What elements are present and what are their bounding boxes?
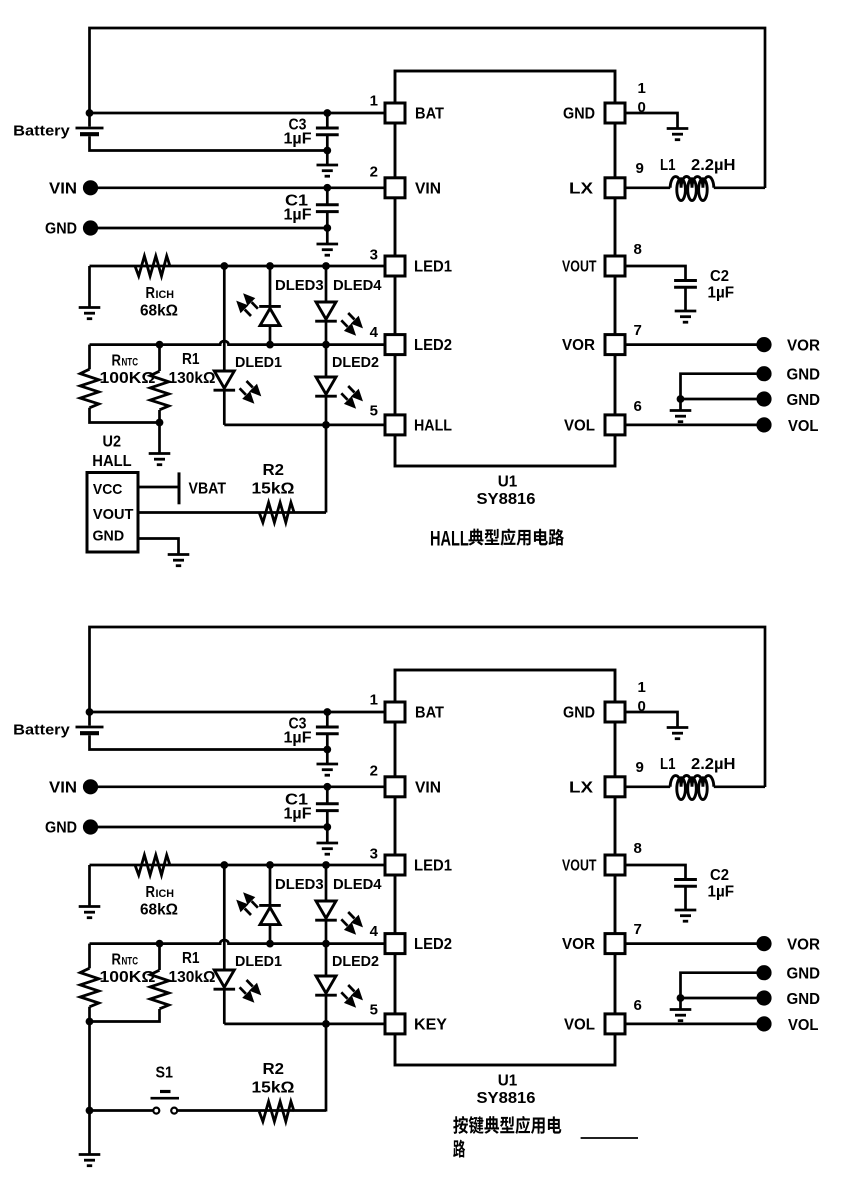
svg-text:DLED3: DLED3	[275, 876, 324, 893]
wire C3 top lead	[326, 712, 329, 727]
svg-text:VBAT: VBAT	[189, 481, 227, 498]
svg-text:3: 3	[370, 247, 378, 264]
wire RICH left gnd stub	[88, 266, 91, 308]
svg-text:LED1: LED1	[414, 858, 452, 875]
wire C1 top lead	[326, 787, 329, 804]
svg-text:DLED2: DLED2	[332, 354, 379, 371]
wire VOUT to C2	[627, 865, 686, 880]
wire C1 gnd stub	[326, 827, 329, 843]
wire pin5 row	[224, 424, 383, 427]
capacitor C2'	[674, 880, 697, 887]
ground C2	[675, 910, 697, 921]
resistor R2'	[259, 1102, 294, 1122]
svg-text:7: 7	[634, 921, 642, 938]
node LED2-DLED3	[266, 341, 274, 349]
wire left column to switch	[88, 1022, 91, 1111]
node LED1-DLED1	[220, 861, 228, 869]
svg-text:DLED1: DLED1	[235, 953, 282, 970]
svg-text:4: 4	[370, 324, 379, 341]
capacitor C3	[316, 128, 339, 135]
node C1 gnd junction	[323, 823, 331, 831]
arrows DLED4 emission	[341, 313, 363, 336]
svg-text:SY8816: SY8816	[477, 491, 536, 508]
wire LED2 row with crossover hop	[90, 940, 384, 944]
wire RNTC bottom	[90, 408, 160, 423]
terminal VOR'	[756, 936, 771, 951]
svg-text:C2: C2	[710, 268, 729, 285]
node LED1-DLED4	[322, 861, 330, 869]
ground C3	[317, 165, 339, 176]
svg-text:SY8816: SY8816	[477, 1090, 536, 1107]
ground pin10	[667, 728, 689, 739]
terminal VOR	[756, 337, 771, 352]
svg-text:GND: GND	[787, 966, 821, 983]
svg-text:5: 5	[370, 1002, 378, 1019]
wire DLED1 bottom lead	[223, 990, 226, 1024]
pin 6 VOL square	[605, 415, 625, 435]
svg-text:VOUT: VOUT	[562, 858, 597, 875]
svg-text:DLED4: DLED4	[333, 876, 382, 893]
node C3 bottom junction	[323, 746, 331, 754]
node pin5-R2	[322, 421, 330, 429]
wire LED1 row	[90, 864, 384, 867]
wire to S1 left contact	[90, 1109, 154, 1112]
node R1 bottom junction	[156, 419, 164, 427]
svg-text:100KΩ: 100KΩ	[100, 370, 156, 387]
svg-text:DLED3: DLED3	[275, 277, 324, 294]
svg-text:GND: GND	[93, 528, 125, 545]
svg-text:VOR: VOR	[787, 936, 820, 953]
node LED2-DLED4	[322, 341, 330, 349]
svg-text:L1: L1	[660, 157, 676, 174]
svg-text:VOUT: VOUT	[93, 506, 133, 523]
svg-text:3: 3	[370, 846, 378, 863]
ground out	[670, 411, 692, 422]
svg-text:C2: C2	[710, 867, 729, 884]
svg-text:L1: L1	[660, 756, 676, 773]
wire GND out 2	[681, 398, 757, 401]
wire DLED1 bottom lead	[223, 391, 226, 425]
wire battery- bottom	[90, 136, 328, 150]
svg-text:VOR: VOR	[787, 337, 820, 354]
svg-text:VIN: VIN	[415, 180, 441, 197]
pin 3 LED1 square	[385, 855, 405, 875]
caption underline	[581, 1137, 638, 1139]
wire R2 riser	[325, 425, 328, 513]
node pin5-R2	[322, 1020, 330, 1028]
svg-text:8: 8	[634, 840, 642, 857]
svg-text:1: 1	[370, 93, 378, 110]
wire switch gnd stub	[88, 1111, 91, 1155]
svg-text:1µF: 1µF	[284, 131, 312, 148]
node C1 gnd junction	[323, 224, 331, 232]
svg-text:HALL: HALL	[414, 417, 452, 434]
svg-text:9: 9	[636, 759, 644, 776]
wire RNTC top lead	[88, 944, 91, 969]
svg-text:R1: R1	[182, 950, 200, 967]
arrows DLED3 emission	[236, 293, 258, 316]
svg-text:R2: R2	[263, 1061, 285, 1078]
wire LED1 row	[90, 265, 384, 268]
wire DLED3 top lead	[269, 865, 272, 905]
node GND out junction	[677, 994, 685, 1002]
wire battery+ to BAT pin	[90, 711, 384, 714]
svg-text:DLED4: DLED4	[333, 277, 382, 294]
node switch junction	[86, 1107, 94, 1115]
svg-text:R2: R2	[263, 462, 285, 479]
svg-text:8: 8	[634, 241, 642, 258]
ground C3	[317, 764, 339, 775]
svg-text:HALL: HALL	[92, 453, 132, 470]
wire battery+ to BAT pin	[90, 112, 384, 115]
pin 7 VOR square	[605, 934, 625, 954]
terminal VOL'	[756, 1016, 771, 1031]
svg-text:100KΩ: 100KΩ	[100, 969, 156, 986]
VBAT tick mark	[178, 472, 181, 504]
node C1 top junction	[323, 184, 331, 192]
wire GND out stub	[679, 399, 682, 411]
node LED1-DLED4	[322, 262, 330, 270]
terminal VIN'	[83, 779, 98, 794]
terminal GND	[83, 220, 98, 235]
caption CJK 按键典型应用电	[453, 1116, 561, 1134]
wire pin10 to gnd	[627, 113, 678, 129]
wire LX to L1	[627, 186, 671, 189]
node LED2-R1	[156, 940, 164, 948]
ground RICH	[79, 907, 101, 918]
svg-text:U2: U2	[103, 434, 122, 451]
resistor RNTC'	[80, 968, 99, 1007]
inductor L1'	[670, 776, 714, 787]
svg-text:VOL: VOL	[788, 418, 819, 435]
pin 8 VOUT square	[605, 855, 625, 875]
node LED2-DLED4	[322, 940, 330, 948]
wire DLED4 top lead	[325, 266, 328, 302]
wire VIN to pin2	[98, 785, 384, 788]
pin 7 VOR square	[605, 335, 625, 355]
wire GND out stub	[679, 998, 682, 1010]
wire pin5 row	[224, 1023, 383, 1026]
node RNTC bottom junction	[86, 1018, 94, 1026]
wire RNTC bottom	[90, 1007, 160, 1022]
LED DLED2	[315, 377, 337, 396]
svg-text:VOR: VOR	[562, 337, 595, 354]
ground C1	[317, 843, 339, 854]
svg-text:1µF: 1µF	[708, 884, 735, 901]
wire L1 to loop	[714, 785, 765, 788]
wire U2 VCC to VBAT	[138, 486, 179, 489]
terminal GND'	[83, 819, 98, 834]
wire RICH left gnd stub	[88, 865, 91, 907]
wire R1 top lead	[158, 944, 161, 970]
wire DLED4 top lead	[325, 865, 328, 901]
wire C3 bottom lead	[326, 734, 329, 764]
svg-text:LED2: LED2	[414, 936, 452, 953]
resistor R2	[259, 503, 294, 523]
wire R2 riser	[325, 1024, 328, 1112]
caption CJK 典型应用电路	[468, 529, 564, 546]
svg-text:HALL: HALL	[430, 527, 469, 550]
wire battery- bottom	[90, 735, 328, 749]
wire GND out 1	[681, 973, 757, 998]
arrows DLED1 emission	[240, 980, 262, 1003]
svg-text:BAT: BAT	[415, 705, 444, 722]
wire GND to C1	[98, 826, 327, 829]
wire DLED1 top lead	[223, 266, 226, 371]
svg-text:NTC: NTC	[122, 357, 139, 369]
svg-text:VOL: VOL	[564, 417, 595, 434]
pin 2 VIN square	[385, 777, 405, 797]
svg-text:VIN: VIN	[415, 779, 441, 796]
wire VBAT top loop	[90, 28, 766, 188]
svg-text:GND: GND	[563, 705, 595, 722]
wire VOR out	[627, 343, 758, 346]
capacitor C2	[674, 281, 697, 288]
node battery + junction	[86, 708, 94, 716]
pin 5 square	[385, 415, 405, 435]
svg-text:6: 6	[634, 398, 642, 415]
terminal GND2'	[756, 990, 771, 1005]
pin 6 VOL square	[605, 1014, 625, 1034]
pin 8 VOUT square	[605, 256, 625, 276]
svg-text:VIN: VIN	[49, 779, 77, 796]
wire VOUT to C2	[627, 266, 686, 281]
wire C2 gnd lead	[684, 287, 687, 311]
node LED2-R1	[156, 341, 164, 349]
resistor RNTC	[80, 369, 99, 408]
svg-text:GND: GND	[563, 106, 595, 123]
terminal GND1'	[756, 965, 771, 980]
op-amp U1 SY8816 body	[395, 71, 615, 466]
wire C1 bottom lead	[326, 212, 329, 228]
svg-text:U1: U1	[498, 1073, 518, 1090]
svg-text:1: 1	[638, 80, 646, 97]
pin 9 LX square	[605, 777, 625, 797]
pin 10 GND square	[605, 702, 625, 722]
svg-text:7: 7	[634, 322, 642, 339]
caption CJK 路	[453, 1140, 465, 1158]
pin 4 LED2 square	[385, 934, 405, 954]
svg-text:KEY: KEY	[414, 1016, 447, 1033]
svg-text:1: 1	[370, 692, 378, 709]
svg-text:R: R	[146, 285, 156, 302]
svg-text:15kΩ: 15kΩ	[252, 481, 295, 498]
wire C1 gnd stub	[326, 228, 329, 244]
ground S1	[79, 1155, 101, 1166]
pin 1 BAT square	[385, 103, 405, 123]
node C1 top junction	[323, 783, 331, 791]
wire U2 GND stub	[138, 539, 179, 555]
resistor R1'	[150, 970, 169, 1009]
node GND out junction	[677, 395, 685, 403]
wire S1 to R2	[177, 1109, 326, 1112]
svg-text:GND: GND	[45, 221, 77, 238]
wire VOR out	[627, 942, 758, 945]
wire VIN to pin2	[98, 186, 384, 189]
battery B1'	[76, 727, 104, 733]
svg-text:Battery: Battery	[13, 722, 70, 739]
svg-text:R: R	[146, 884, 156, 901]
node LED1-DLED3	[266, 861, 274, 869]
wire C3 bottom lead	[326, 135, 329, 165]
ground R1	[149, 454, 171, 465]
wire DLED3 bottom lead	[269, 925, 272, 944]
svg-text:130kΩ: 130kΩ	[169, 969, 216, 986]
wire DLED2 top lead	[325, 944, 328, 976]
pin 1 BAT square	[385, 702, 405, 722]
wire LX to L1	[627, 785, 671, 788]
ground RICH	[79, 308, 101, 319]
LED DLED1'	[214, 970, 236, 989]
svg-text:LED1: LED1	[414, 259, 452, 276]
svg-text:VOR: VOR	[562, 936, 595, 953]
wire VOL out	[627, 1023, 758, 1026]
inductor L1	[670, 176, 714, 187]
ground C1	[317, 244, 339, 255]
svg-text:S1: S1	[156, 1065, 174, 1082]
svg-text:GND: GND	[45, 820, 77, 837]
op-amp U1 SY8816 body'	[395, 670, 615, 1065]
terminal VIN	[83, 180, 98, 195]
wire DLED1 top lead	[223, 865, 226, 970]
arrows DLED3 emission	[236, 892, 258, 915]
svg-text:2.2µH: 2.2µH	[691, 756, 736, 773]
terminal GND1	[756, 366, 771, 381]
wire R1 gnd stub	[158, 423, 161, 454]
svg-text:1µF: 1µF	[284, 806, 312, 823]
svg-text:GND: GND	[787, 392, 821, 409]
wire VBAT top loop	[90, 627, 766, 787]
svg-text:15kΩ: 15kΩ	[252, 1080, 295, 1097]
wire GND out 1	[681, 374, 757, 399]
LED DLED3	[259, 306, 281, 325]
wire DLED3 bottom lead	[269, 326, 272, 345]
capacitor C1'	[316, 804, 339, 811]
node LED2-DLED3	[266, 940, 274, 948]
arrows DLED1 emission	[240, 381, 262, 404]
svg-text:VCC: VCC	[93, 481, 123, 498]
capacitor C3'	[316, 727, 339, 734]
ground C2	[675, 311, 697, 322]
wire L1 to loop	[714, 186, 765, 189]
wire VOL out	[627, 424, 758, 427]
pin 4 LED2 square	[385, 335, 405, 355]
wire C1 top lead	[326, 188, 329, 205]
svg-text:2: 2	[370, 164, 378, 181]
wire DLED2 bottom lead	[325, 397, 328, 425]
wire C2 gnd lead	[684, 886, 687, 910]
svg-text:U1: U1	[498, 474, 518, 491]
svg-text:9: 9	[636, 160, 644, 177]
svg-text:LX: LX	[569, 779, 593, 796]
wire GND out 2	[681, 997, 757, 1000]
svg-text:NTC: NTC	[122, 956, 139, 968]
node LED1-DLED1	[220, 262, 228, 270]
LED DLED1	[214, 371, 236, 390]
wire DLED2 top lead	[325, 345, 328, 377]
svg-text:1µF: 1µF	[284, 207, 312, 224]
svg-text:5: 5	[370, 403, 378, 420]
svg-text:R: R	[112, 952, 122, 969]
wire DLED3 top lead	[269, 266, 272, 306]
svg-text:1: 1	[638, 679, 646, 696]
arrows DLED2 emission	[341, 386, 363, 409]
wire DLED2 bottom lead	[325, 996, 328, 1024]
svg-text:68kΩ: 68kΩ	[140, 303, 178, 320]
svg-text:VOL: VOL	[788, 1017, 819, 1034]
arrows DLED2 emission	[341, 985, 363, 1008]
terminal GND2	[756, 391, 771, 406]
svg-text:R1: R1	[182, 351, 200, 368]
terminal VOL	[756, 417, 771, 432]
resistor RICH	[135, 256, 170, 276]
node battery + junction	[86, 109, 94, 117]
wire C3 top lead	[326, 113, 329, 128]
svg-text:LX: LX	[569, 180, 593, 197]
LED DLED3'	[259, 905, 281, 924]
ground out	[670, 1010, 692, 1021]
svg-text:VIN: VIN	[49, 180, 77, 197]
ground U2	[168, 555, 190, 566]
svg-text:DLED1: DLED1	[235, 354, 282, 371]
wire U2 VOUT to R2	[138, 511, 326, 514]
wire C1 bottom lead	[326, 811, 329, 827]
svg-text:VOL: VOL	[564, 1016, 595, 1033]
hall sensor U2 box	[87, 473, 138, 553]
wire pin10 to gnd	[627, 712, 678, 728]
svg-text:6: 6	[634, 997, 642, 1014]
svg-text:GND: GND	[787, 367, 821, 384]
svg-text:1µF: 1µF	[284, 730, 312, 747]
wire LED2 row with crossover hop	[90, 341, 384, 345]
svg-text:ICH: ICH	[156, 888, 175, 900]
LED DLED4	[315, 302, 337, 321]
pin 3 LED1 square	[385, 256, 405, 276]
node LED1-DLED3	[266, 262, 274, 270]
svg-text:2.2µH: 2.2µH	[691, 157, 736, 174]
svg-text:Battery: Battery	[13, 123, 70, 140]
arrows DLED4 emission	[341, 912, 363, 935]
pin 9 LX square	[605, 178, 625, 198]
svg-text:1µF: 1µF	[708, 285, 735, 302]
svg-text:VOUT: VOUT	[562, 259, 597, 276]
node C3 bottom junction	[323, 147, 331, 155]
svg-text:LED2: LED2	[414, 337, 452, 354]
pin 2 VIN square	[385, 178, 405, 198]
pin 10 GND square	[605, 103, 625, 123]
capacitor C1	[316, 205, 339, 212]
LED DLED2'	[315, 976, 337, 995]
svg-text:GND: GND	[787, 991, 821, 1008]
resistor R1	[150, 371, 169, 410]
svg-text:2: 2	[370, 763, 378, 780]
node C3 top junction	[323, 708, 331, 716]
wire GND to C1	[98, 227, 327, 230]
svg-text:130kΩ: 130kΩ	[169, 370, 216, 387]
svg-text:R: R	[112, 353, 122, 370]
resistor RICH'	[135, 855, 170, 875]
wire DLED4 bottom lead	[325, 322, 328, 345]
svg-text:68kΩ: 68kΩ	[140, 902, 178, 919]
svg-text:4: 4	[370, 923, 379, 940]
LED DLED4'	[315, 901, 337, 920]
battery B1	[76, 128, 104, 134]
svg-text:ICH: ICH	[156, 289, 175, 301]
switch S1	[151, 1092, 180, 1114]
ground pin10	[667, 129, 689, 140]
pin 5 square	[385, 1014, 405, 1034]
wire RNTC top lead	[88, 345, 91, 370]
